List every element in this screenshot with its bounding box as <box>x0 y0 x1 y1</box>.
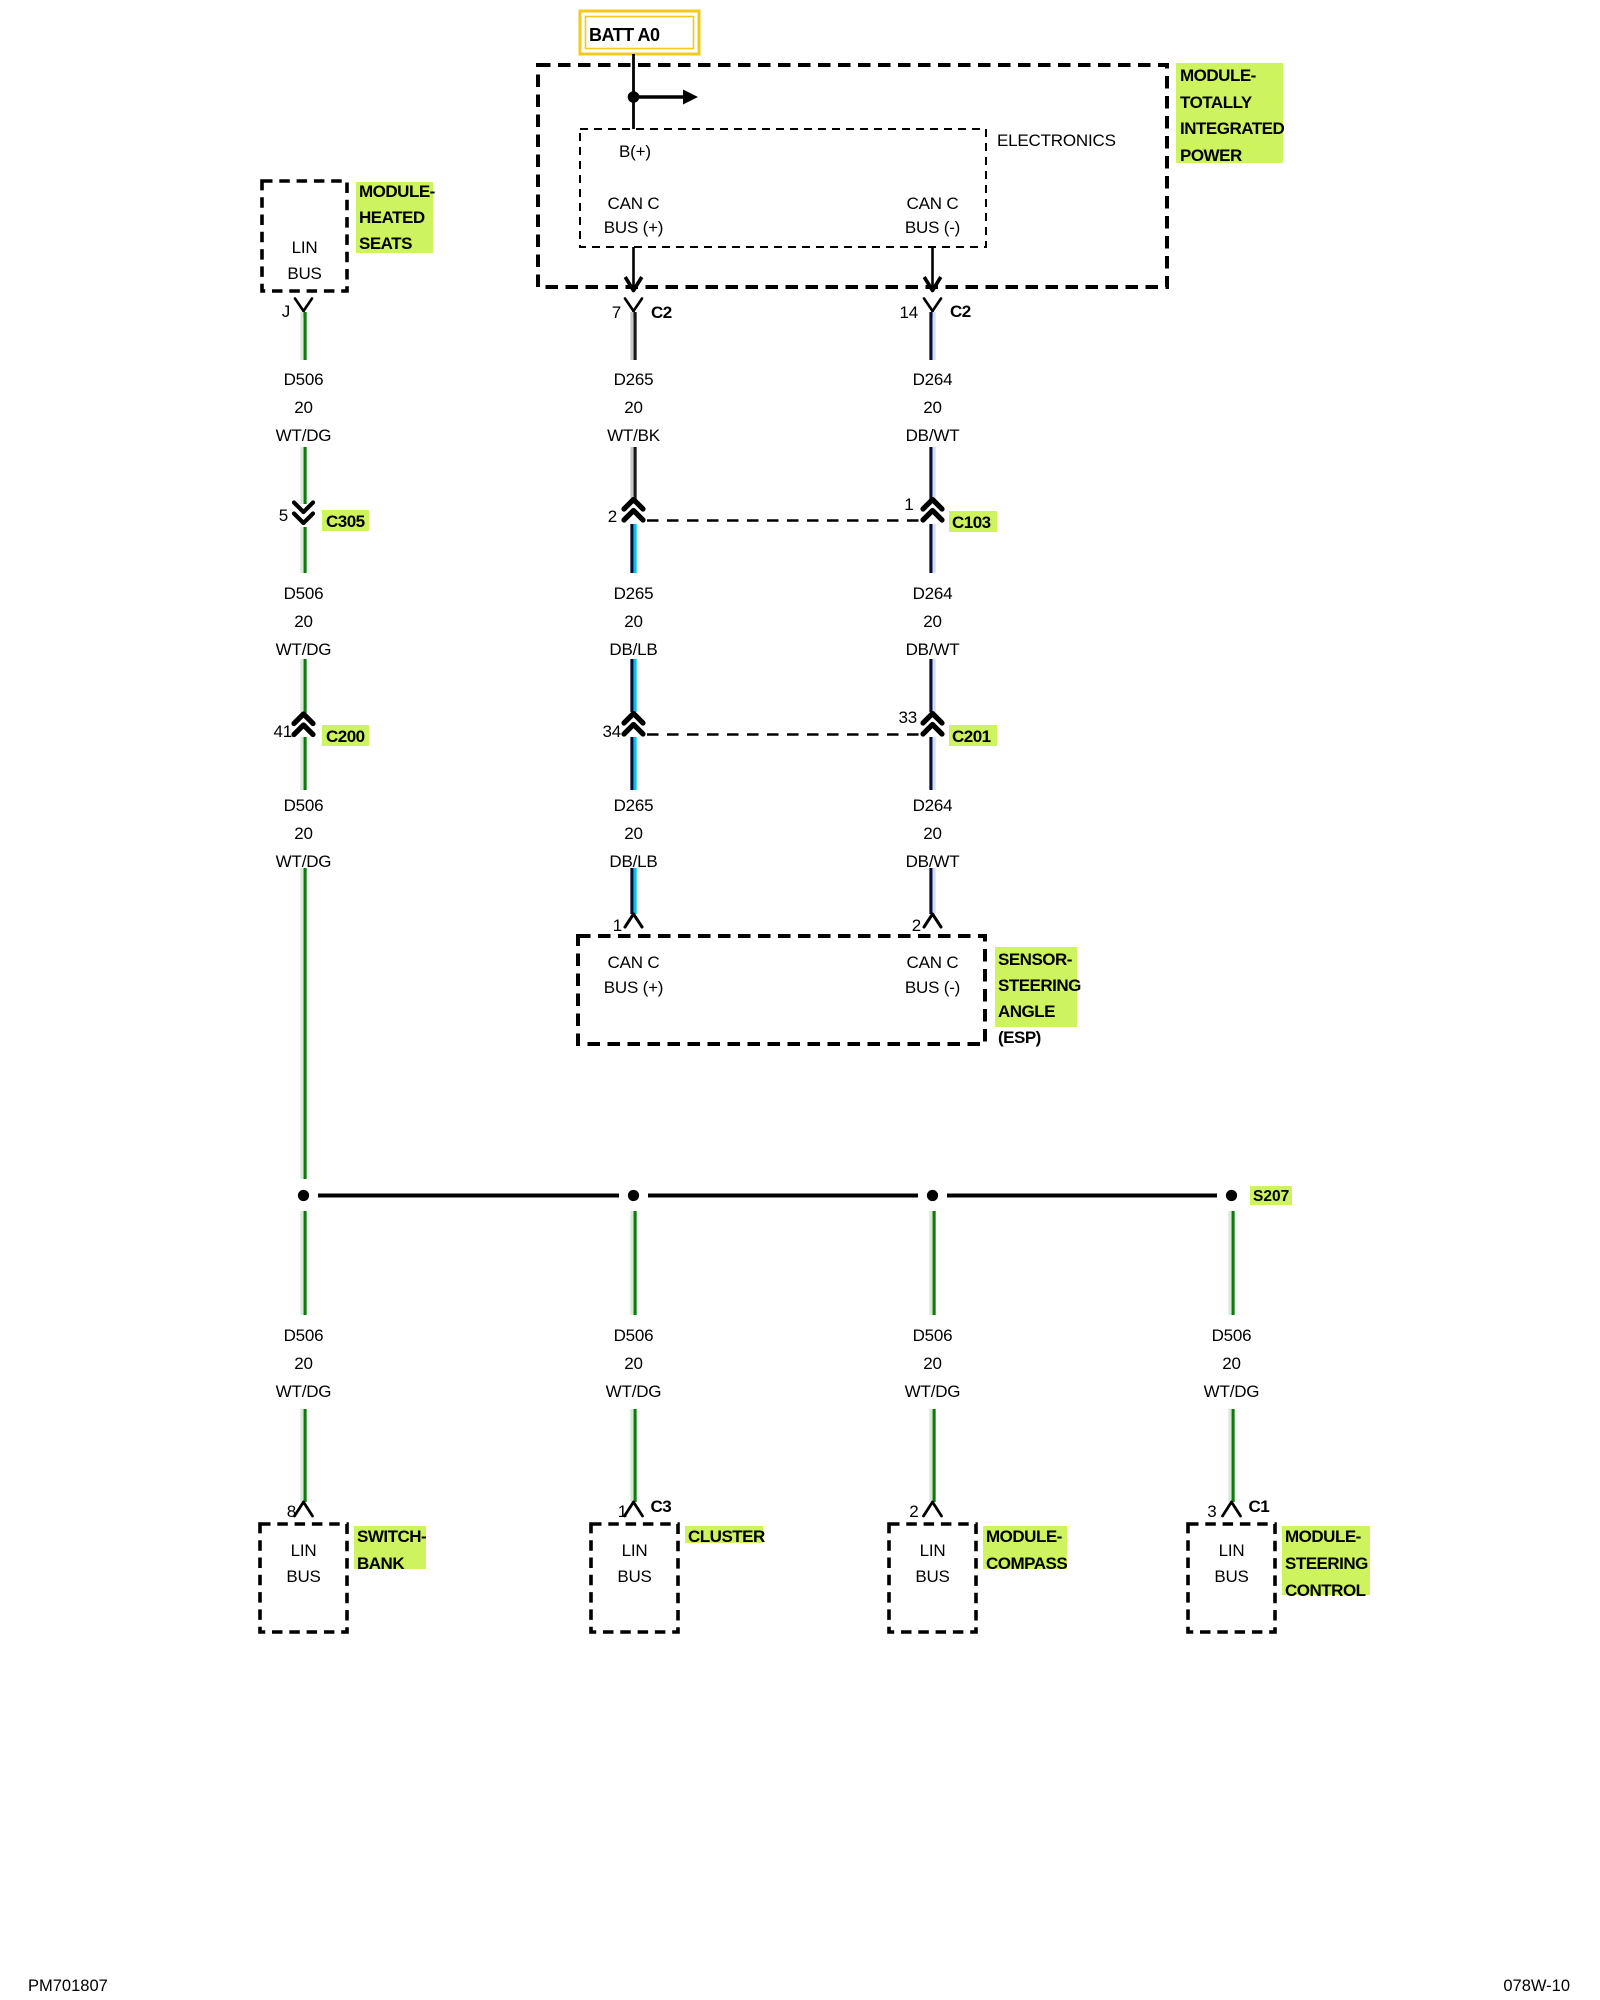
svg-text:MODULE-: MODULE- <box>359 182 435 201</box>
svg-text:D264: D264 <box>913 584 953 603</box>
svg-text:D506: D506 <box>913 1326 953 1345</box>
svg-text:20: 20 <box>294 824 313 843</box>
svg-text:2: 2 <box>909 1502 918 1521</box>
svg-text:D264: D264 <box>913 370 953 389</box>
svg-text:BANK: BANK <box>357 1554 405 1573</box>
svg-text:J: J <box>282 302 290 321</box>
svg-text:STEERING: STEERING <box>998 976 1081 995</box>
svg-text:CAN C: CAN C <box>608 194 660 213</box>
svg-text:33: 33 <box>898 708 917 727</box>
svg-text:20: 20 <box>923 824 942 843</box>
svg-text:20: 20 <box>294 612 313 631</box>
svg-text:INTEGRATED: INTEGRATED <box>1180 119 1284 138</box>
svg-text:LIN: LIN <box>292 238 318 257</box>
svg-text:DB/WT: DB/WT <box>906 640 960 659</box>
svg-text:BUS (+): BUS (+) <box>604 978 664 997</box>
svg-text:7: 7 <box>612 303 621 322</box>
svg-text:20: 20 <box>294 398 313 417</box>
svg-text:BUS: BUS <box>286 1567 320 1586</box>
svg-text:WT/DG: WT/DG <box>606 1382 662 1401</box>
svg-text:WT/DG: WT/DG <box>276 852 332 871</box>
svg-text:C305: C305 <box>326 512 365 531</box>
svg-text:LIN: LIN <box>291 1541 317 1560</box>
svg-text:20: 20 <box>624 398 643 417</box>
svg-text:D506: D506 <box>284 584 324 603</box>
svg-text:C103: C103 <box>952 513 991 532</box>
svg-text:5: 5 <box>279 506 288 525</box>
svg-text:S207: S207 <box>1253 1188 1289 1205</box>
svg-text:14: 14 <box>899 303 918 322</box>
svg-text:WT/DG: WT/DG <box>905 1382 961 1401</box>
svg-text:D506: D506 <box>1212 1326 1252 1345</box>
svg-text:STEERING: STEERING <box>1285 1554 1368 1573</box>
svg-text:SWITCH-: SWITCH- <box>357 1527 426 1546</box>
svg-text:C1: C1 <box>1249 1497 1270 1516</box>
svg-text:POWER: POWER <box>1180 146 1242 165</box>
svg-text:8: 8 <box>287 1502 296 1521</box>
svg-text:LIN: LIN <box>920 1541 946 1560</box>
svg-text:BATT A0: BATT A0 <box>589 25 660 45</box>
svg-text:078W-10: 078W-10 <box>1503 1977 1570 1995</box>
svg-text:BUS (-): BUS (-) <box>905 978 960 997</box>
svg-text:CLUSTER: CLUSTER <box>688 1527 765 1546</box>
svg-text:LIN: LIN <box>1219 1541 1245 1560</box>
svg-text:C2: C2 <box>651 303 672 322</box>
svg-text:DB/WT: DB/WT <box>906 426 960 445</box>
svg-text:BUS (-): BUS (-) <box>905 218 960 237</box>
svg-text:20: 20 <box>624 612 643 631</box>
svg-text:(ESP): (ESP) <box>998 1028 1041 1047</box>
svg-text:WT/DG: WT/DG <box>276 426 332 445</box>
svg-text:D506: D506 <box>284 796 324 815</box>
svg-text:WT/DG: WT/DG <box>276 640 332 659</box>
svg-text:COMPASS: COMPASS <box>986 1554 1067 1573</box>
svg-text:BUS: BUS <box>287 264 321 283</box>
svg-text:D506: D506 <box>284 370 324 389</box>
svg-text:ANGLE: ANGLE <box>998 1002 1055 1021</box>
svg-text:D265: D265 <box>614 370 654 389</box>
svg-text:C201: C201 <box>952 727 991 746</box>
svg-text:C2: C2 <box>950 302 971 321</box>
svg-text:20: 20 <box>923 612 942 631</box>
svg-text:CAN C: CAN C <box>907 953 959 972</box>
svg-text:LIN: LIN <box>622 1541 648 1560</box>
svg-text:20: 20 <box>294 1354 313 1373</box>
svg-text:ELECTRONICS: ELECTRONICS <box>997 131 1116 150</box>
svg-text:DB/WT: DB/WT <box>906 852 960 871</box>
svg-text:D265: D265 <box>614 796 654 815</box>
svg-text:D264: D264 <box>913 796 953 815</box>
svg-text:HEATED: HEATED <box>359 208 425 227</box>
svg-text:2: 2 <box>912 916 921 935</box>
svg-text:WT/BK: WT/BK <box>607 426 661 445</box>
svg-text:BUS: BUS <box>617 1567 651 1586</box>
svg-text:3: 3 <box>1207 1502 1216 1521</box>
svg-text:C3: C3 <box>651 1497 672 1516</box>
svg-text:MODULE-: MODULE- <box>1180 66 1256 85</box>
svg-text:41: 41 <box>273 722 292 741</box>
svg-text:B(+): B(+) <box>619 142 651 161</box>
svg-text:34: 34 <box>602 722 621 741</box>
svg-text:PM701807: PM701807 <box>28 1977 108 1995</box>
svg-text:20: 20 <box>923 1354 942 1373</box>
svg-text:WT/DG: WT/DG <box>276 1382 332 1401</box>
svg-text:SEATS: SEATS <box>359 234 412 253</box>
svg-text:20: 20 <box>624 824 643 843</box>
svg-text:20: 20 <box>624 1354 643 1373</box>
svg-text:CONTROL: CONTROL <box>1285 1581 1366 1600</box>
svg-text:CAN C: CAN C <box>907 194 959 213</box>
svg-text:WT/DG: WT/DG <box>1204 1382 1260 1401</box>
svg-text:CAN C: CAN C <box>608 953 660 972</box>
svg-text:2: 2 <box>608 507 617 526</box>
svg-text:1: 1 <box>904 495 913 514</box>
svg-text:SENSOR-: SENSOR- <box>998 950 1072 969</box>
svg-text:20: 20 <box>1222 1354 1241 1373</box>
svg-text:MODULE-: MODULE- <box>986 1527 1062 1546</box>
svg-text:1: 1 <box>618 1502 627 1521</box>
svg-text:1: 1 <box>613 916 622 935</box>
svg-text:BUS: BUS <box>1214 1567 1248 1586</box>
svg-text:MODULE-: MODULE- <box>1285 1527 1361 1546</box>
svg-text:C200: C200 <box>326 727 365 746</box>
svg-text:DB/LB: DB/LB <box>609 640 657 659</box>
svg-text:BUS: BUS <box>915 1567 949 1586</box>
svg-text:D506: D506 <box>614 1326 654 1345</box>
svg-text:D265: D265 <box>614 584 654 603</box>
svg-text:DB/LB: DB/LB <box>609 852 657 871</box>
svg-text:TOTALLY: TOTALLY <box>1180 93 1253 112</box>
svg-text:D506: D506 <box>284 1326 324 1345</box>
svg-text:20: 20 <box>923 398 942 417</box>
svg-text:BUS (+): BUS (+) <box>604 218 664 237</box>
